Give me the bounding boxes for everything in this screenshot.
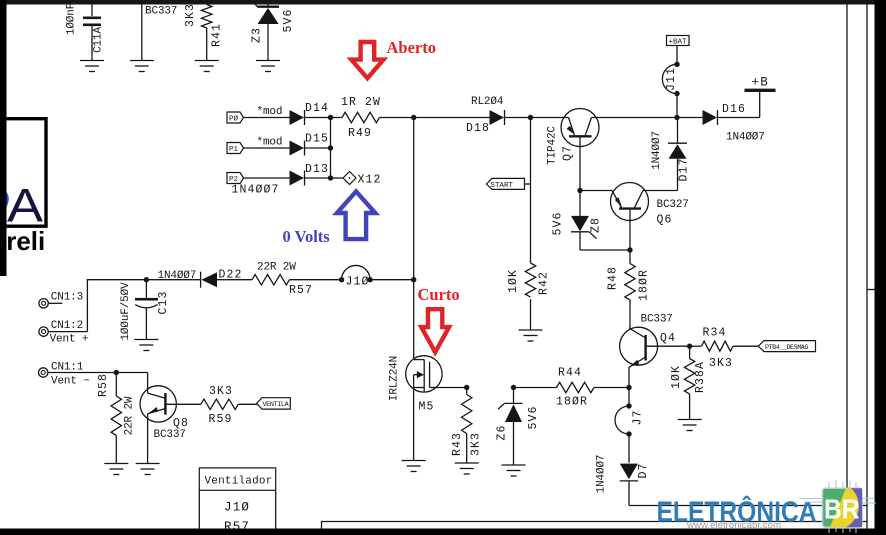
resistor R34 3K3 (690, 327, 759, 371)
wire Q7 to BAT node (592, 117, 678, 119)
diode D14 (290, 102, 331, 125)
wire bottom rail (629, 505, 867, 507)
resistor R58 22R 2W (97, 373, 136, 464)
resistor R44 180R (514, 367, 630, 409)
logo ELETRONICA BR (657, 480, 877, 533)
resistor R57 22R 2W (252, 262, 342, 298)
node dot Q6 base (627, 247, 632, 252)
ground under C13 (134, 340, 158, 351)
svg-text:D22: D22 (219, 269, 243, 282)
svg-text:1ØK: 1ØK (507, 269, 520, 293)
svg-text:IRLZ24N: IRLZ24N (389, 356, 401, 401)
svg-text:R49: R49 (348, 127, 372, 140)
svg-text:CN1:2: CN1:2 (51, 320, 83, 332)
jumper J7 (615, 388, 645, 463)
transistor Q6 BC327 (611, 183, 689, 251)
resistor R41 (184, 3, 224, 61)
svg-text:D13: D13 (305, 163, 329, 176)
svg-text:Z3: Z3 (251, 27, 264, 43)
node dot D14 (328, 115, 333, 120)
node dot main right (674, 115, 679, 120)
node dot R49 out (411, 115, 416, 120)
ground under C11A (80, 61, 104, 72)
ground under Z3 (256, 61, 280, 72)
svg-text:R42: R42 (538, 271, 551, 295)
transistor Q8 BC337 (140, 373, 201, 464)
svg-text:3K3: 3K3 (470, 432, 483, 456)
svg-text:3K3: 3K3 (184, 3, 197, 27)
svg-text:Aberto: Aberto (387, 38, 436, 57)
svg-text:1N4ØØ7: 1N4ØØ7 (596, 455, 608, 494)
jumper J11 (662, 62, 679, 118)
svg-text:5V6: 5V6 (552, 211, 565, 235)
svg-text:PTB4__DESMAG: PTB4__DESMAG (765, 344, 808, 352)
svg-text:BC337: BC337 (154, 429, 186, 441)
svg-text:0 Volts: 0 Volts (283, 227, 331, 246)
node dot C13 top (144, 277, 149, 282)
border left bar (0, 0, 7, 276)
node dot Z6 top (511, 385, 516, 390)
svg-text:BC337: BC337 (145, 6, 177, 18)
node dot D15 (328, 145, 333, 150)
diode D7 (596, 455, 651, 506)
svg-text:J1Ø: J1Ø (346, 276, 370, 289)
svg-text:PØ: PØ (229, 115, 239, 124)
diode D13 (290, 163, 331, 186)
connector CN1:2 (39, 320, 88, 346)
svg-text:R41: R41 (211, 23, 224, 47)
connector flag P0 (227, 106, 290, 124)
svg-text:3K3: 3K3 (209, 385, 233, 398)
ground under Q8 (136, 464, 160, 475)
svg-text:1N4ØØ7: 1N4ØØ7 (651, 131, 663, 170)
svg-text:22R 2W: 22R 2W (257, 262, 296, 274)
label +BAT box (667, 36, 690, 65)
svg-text:3K3: 3K3 (709, 357, 733, 370)
testpoint X12 (331, 172, 382, 187)
ground under R38A (678, 420, 702, 431)
svg-text:R58: R58 (97, 373, 110, 397)
wire main bus vertical (413, 118, 415, 360)
pennant START (486, 178, 530, 189)
wire rail to Q7 (531, 117, 569, 119)
svg-text:1N4ØØ7: 1N4ØØ7 (158, 270, 197, 282)
logo letter fragment blue (7, 192, 9, 207)
svg-text:C11A: C11A (93, 27, 105, 53)
resistor R43 3K3 (451, 388, 483, 464)
node dot R43 top (464, 385, 469, 390)
node dot bus mid (411, 277, 416, 282)
ground under M5 (402, 461, 426, 472)
svg-text:*mod: *mod (257, 137, 283, 149)
svg-text:CN1:3: CN1:3 (51, 292, 83, 304)
node dot D18 out (528, 115, 533, 120)
svg-text:R48: R48 (607, 266, 620, 290)
diode D22 (146, 269, 252, 288)
zener Z8 (552, 191, 631, 251)
svg-text:R57: R57 (224, 520, 250, 534)
border top bar (0, 0, 886, 5)
capacitor C13 100uF/50V (120, 280, 170, 341)
svg-text:J7: J7 (632, 409, 645, 425)
svg-text:TIP42C: TIP42C (547, 126, 559, 165)
node dot Q4 emitter (626, 385, 631, 390)
svg-text:START: START (491, 182, 514, 190)
svg-text:R44: R44 (558, 367, 582, 380)
mosfet M5 IRLZ24N (389, 356, 467, 461)
svg-text:R43: R43 (451, 432, 464, 456)
resistor R42 10K (507, 263, 551, 330)
red arrow Aberto (351, 42, 383, 78)
red arrow Curto (421, 309, 449, 352)
diode D17 (643, 118, 691, 191)
svg-text:1ØK: 1ØK (670, 365, 683, 389)
svg-text:1ØØnF: 1ØØnF (66, 3, 78, 35)
svg-text:R34: R34 (703, 327, 727, 340)
blue arrow 0 Volts (337, 191, 375, 239)
wire Q7 base to Q6 (580, 190, 612, 192)
connector CN1:1 (39, 362, 117, 388)
svg-text:J11: J11 (665, 67, 678, 91)
transistor Q4 BC337 (620, 314, 690, 388)
wire START branch vertical (530, 118, 532, 264)
pennant VENTILA (257, 398, 291, 410)
wire BC337 stub (141, 5, 143, 61)
diode D15 (290, 133, 331, 156)
sheet inner border right line 1 (846, 5, 848, 506)
node dot D13 (328, 175, 333, 180)
svg-text:RL2Ø4: RL2Ø4 (471, 96, 504, 108)
svg-text:VENTILA: VENTILA (263, 401, 290, 409)
svg-text:22R 2W: 22R 2W (124, 396, 136, 435)
svg-text:*mod: *mod (257, 106, 283, 118)
svg-text:1N4ØØ7: 1N4ØØ7 (232, 184, 280, 197)
svg-text:BC337: BC337 (641, 314, 673, 326)
sheet inner border bottom line (322, 522, 868, 529)
svg-text:1N4ØØ7: 1N4ØØ7 (726, 132, 765, 144)
wire diode bus vertical (330, 118, 332, 179)
svg-text:BC327: BC327 (657, 199, 689, 211)
ground under BC337 wire (130, 61, 154, 72)
power +B (745, 76, 776, 118)
svg-text:A: A (7, 179, 44, 232)
svg-text:+B: +B (752, 76, 769, 90)
wire CN1:1 to Q8 (116, 372, 147, 374)
border bottom bar (0, 529, 886, 535)
svg-text:Vent −: Vent − (51, 376, 90, 388)
svg-text:Z6: Z6 (496, 424, 509, 440)
diode D18 RL204 (414, 96, 531, 135)
svg-text:BR: BR (824, 494, 860, 525)
connector CN1:3 (39, 292, 83, 308)
svg-text:Vent +: Vent + (50, 334, 89, 346)
svg-text:R59: R59 (209, 413, 233, 426)
svg-text:D15: D15 (305, 133, 329, 146)
svg-text:D14: D14 (305, 102, 329, 115)
node dot Q7 base / Z8 (577, 188, 582, 193)
jumper J10 (339, 265, 414, 288)
svg-text:J1Ø: J1Ø (224, 501, 250, 515)
svg-text:Curto: Curto (418, 285, 460, 304)
svg-text:5V6: 5V6 (282, 8, 295, 32)
svg-text:5V6: 5V6 (527, 405, 540, 429)
svg-text:X12: X12 (358, 174, 382, 187)
svg-text:18ØR: 18ØR (638, 269, 651, 301)
ground under R58 (104, 464, 128, 475)
svg-text:+BAT: +BAT (669, 38, 688, 46)
sheet inner border right line 2 (866, 5, 868, 529)
svg-text:www.eletronicabr.com: www.eletronicabr.com (686, 520, 781, 531)
logo box top-left (2, 119, 46, 227)
node dot Q4 base (687, 344, 692, 349)
svg-text:ireli: ireli (0, 226, 45, 256)
ground under R42 (519, 330, 543, 341)
diode D16 (677, 103, 765, 144)
pennant PTB4__DESMAG (758, 341, 815, 352)
resistor R59 3K3 (201, 385, 257, 426)
svg-text:M5: M5 (419, 401, 435, 414)
svg-text:D18: D18 (466, 122, 490, 135)
table Ventilador (199, 468, 275, 534)
svg-text:Ventilador: Ventilador (205, 476, 273, 488)
ground under R41 (195, 61, 219, 72)
connector flag P1 (227, 137, 290, 155)
transistor Q7 TIP42C (547, 109, 600, 191)
resistor R38A 10K (670, 346, 707, 419)
svg-text:1ØØuF/5ØV: 1ØØuF/5ØV (120, 282, 132, 341)
svg-text:Q4: Q4 (660, 332, 676, 345)
svg-text:CN1:1: CN1:1 (51, 362, 84, 374)
svg-text:D17: D17 (678, 157, 691, 181)
connector flag P2 (227, 173, 290, 197)
ground under R43 (455, 463, 479, 474)
svg-text:R38A: R38A (694, 361, 707, 393)
svg-text:Q6: Q6 (657, 214, 673, 227)
sheet border tick (867, 289, 875, 291)
svg-text:D16: D16 (722, 103, 746, 116)
svg-text:1R 2W: 1R 2W (341, 96, 381, 109)
svg-text:C13: C13 (157, 290, 170, 314)
zener Z6 (496, 388, 541, 466)
svg-text:Z8: Z8 (590, 217, 603, 233)
svg-text:18ØR: 18ØR (556, 396, 588, 409)
ground under Z6 (502, 465, 526, 476)
node dot R58 top (114, 370, 119, 375)
wire CN1:2 riser (87, 280, 146, 332)
zener Z3 (251, 2, 296, 61)
resistor R48 180R (607, 250, 651, 328)
resistor R49 1R 2W (331, 96, 414, 140)
svg-text:Q7: Q7 (562, 145, 575, 161)
border right bar (875, 0, 886, 535)
capacitor C11A (66, 3, 105, 61)
svg-text:P1: P1 (229, 146, 239, 154)
svg-text:D7: D7 (637, 462, 650, 478)
svg-text:R57: R57 (289, 284, 313, 297)
